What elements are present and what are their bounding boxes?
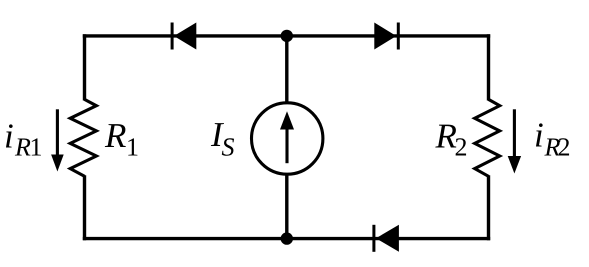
svg-text:2: 2 bbox=[558, 133, 571, 162]
label R1 bbox=[104, 116, 139, 162]
svg-text:i: i bbox=[4, 117, 14, 156]
label iR2 bbox=[534, 116, 571, 162]
current source IS circle bbox=[252, 103, 323, 174]
svg-text:R: R bbox=[104, 116, 126, 155]
wire top rail bbox=[83, 34, 490, 37]
wire right rail lower bbox=[487, 175, 490, 240]
svg-text:i: i bbox=[534, 116, 544, 155]
resistor R2 bbox=[475, 99, 500, 176]
diode top-right (pointing right) bbox=[374, 23, 400, 50]
wire right rail upper bbox=[487, 34, 490, 100]
diode top-left (pointing left) bbox=[171, 23, 197, 50]
label R2 bbox=[435, 117, 468, 162]
svg-text:2: 2 bbox=[455, 133, 468, 162]
wire middle lower bbox=[285, 173, 288, 239]
svg-text:S: S bbox=[222, 133, 235, 162]
svg-text:1: 1 bbox=[126, 133, 139, 162]
label IS bbox=[210, 115, 235, 162]
wire bottom rail bbox=[83, 237, 490, 240]
resistor R1 bbox=[70, 99, 96, 176]
label iR1 bbox=[4, 117, 43, 162]
svg-text:1: 1 bbox=[30, 133, 43, 162]
wire left rail upper bbox=[83, 34, 86, 100]
current arrow iR1 bbox=[51, 109, 64, 171]
wire middle upper bbox=[285, 36, 288, 105]
diode bottom (pointing left) bbox=[372, 225, 399, 252]
node dot bottom bbox=[281, 232, 293, 244]
svg-text:R: R bbox=[14, 133, 31, 162]
current arrow iR2 bbox=[508, 109, 521, 173]
current source IS arrow bbox=[280, 111, 294, 163]
node dot top bbox=[281, 30, 293, 42]
wire left rail lower bbox=[83, 175, 86, 240]
